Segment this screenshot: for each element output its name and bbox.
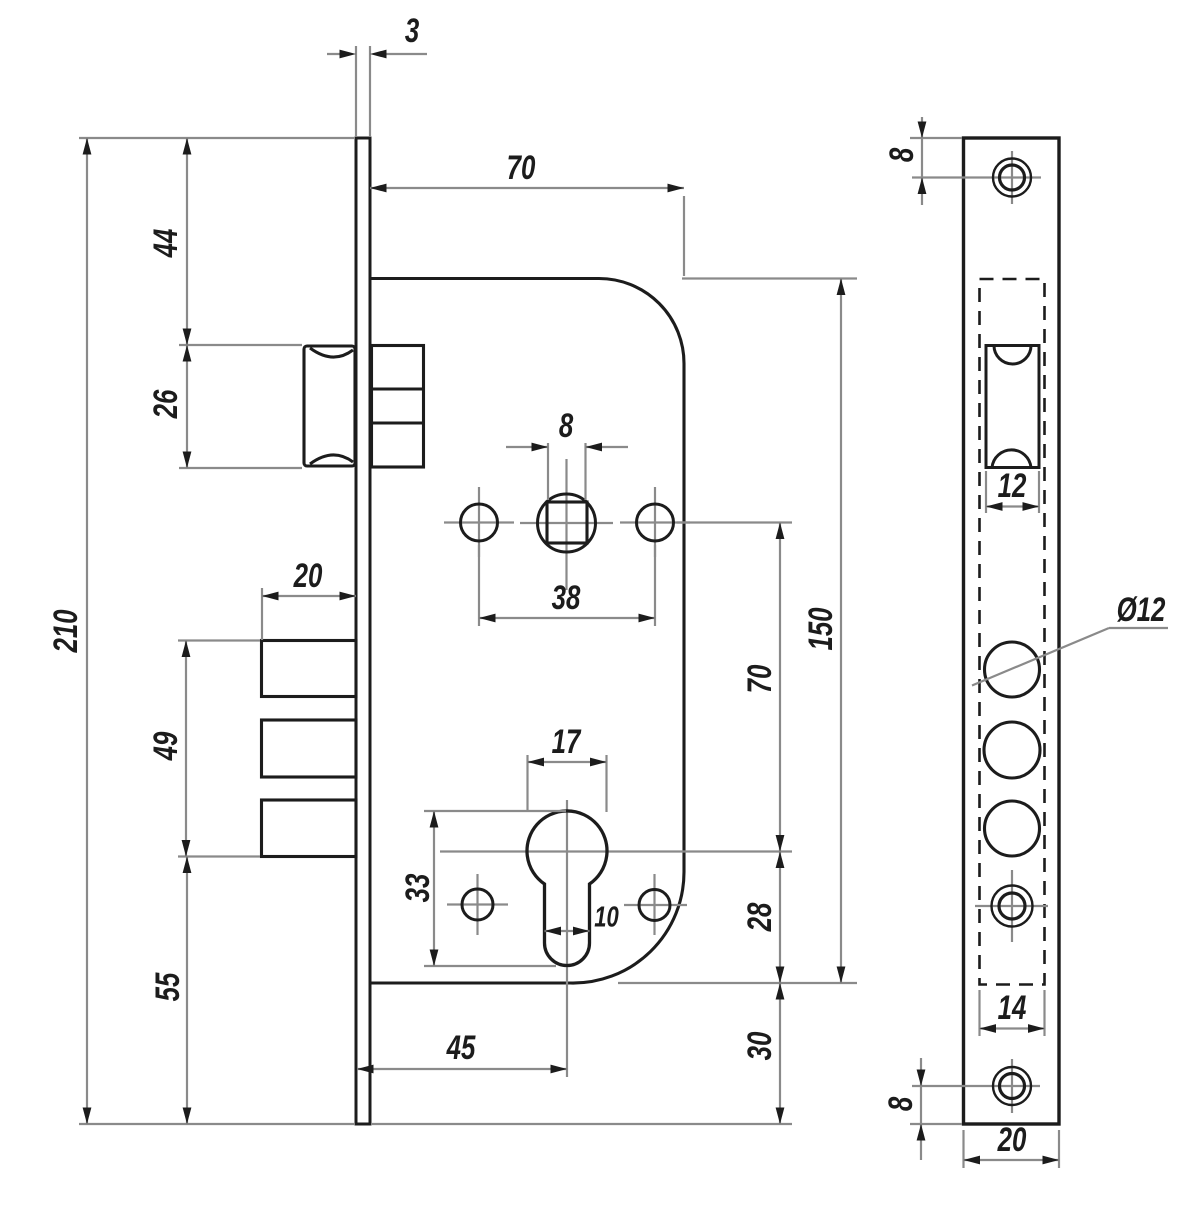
- faceplate front view: [964, 138, 1060, 1124]
- svg-text:12: 12: [998, 468, 1027, 505]
- latch cutout in faceplate: [986, 346, 1039, 468]
- dimension 12 (latch cutout width): [986, 468, 1039, 513]
- deadbolt hole 3 (O12): [985, 801, 1040, 856]
- svg-text:8: 8: [883, 1097, 920, 1112]
- svg-text:30: 30: [742, 1031, 779, 1060]
- deadbolt hole 2 (O12): [984, 722, 1040, 778]
- dimension 210 (overall height): [48, 138, 354, 1124]
- latch bolt body inside case: [372, 346, 424, 468]
- svg-text:8: 8: [884, 148, 921, 163]
- svg-text:17: 17: [552, 724, 582, 761]
- dimension 8 (bottom screw offset): [883, 1058, 962, 1160]
- dimension 28: [742, 852, 785, 984]
- svg-text:44: 44: [148, 228, 185, 258]
- svg-text:33: 33: [400, 873, 437, 902]
- lower-right cylinder screw hole: [624, 874, 687, 935]
- dimension 55: [150, 857, 192, 1125]
- O12 label with leader: [972, 592, 1168, 686]
- svg-text:49: 49: [148, 731, 185, 761]
- dimension 3 (faceplate thickness): [327, 13, 427, 137]
- svg-text:Ø12: Ø12: [1117, 592, 1166, 629]
- dimension 8 (spindle square): [506, 408, 628, 500]
- dimension 33 (cylinder profile height): [400, 811, 566, 966]
- deadbolt hole 1 (O12): [985, 642, 1040, 697]
- dimension 30: [372, 983, 792, 1124]
- svg-text:20: 20: [997, 1122, 1027, 1159]
- svg-text:150: 150: [803, 607, 840, 650]
- svg-text:20: 20: [293, 558, 323, 595]
- bottom fixing screw hole: [912, 1059, 1040, 1113]
- latch bolt head (left of faceplate): [304, 346, 355, 466]
- dimension 70 (case depth, top): [370, 150, 684, 276]
- lock case body: [371, 279, 685, 984]
- svg-text:8: 8: [559, 408, 574, 445]
- left handle-screw hole: [444, 487, 514, 557]
- dimension 14 (case width): [980, 990, 1045, 1036]
- dimension 26 (latch height): [148, 345, 302, 468]
- middle fixing screw hole: [975, 870, 1048, 942]
- dimension 70 (right, handle to cylinder): [677, 523, 792, 852]
- dimension 20 (faceplate width): [964, 1122, 1060, 1168]
- svg-text:14: 14: [998, 990, 1027, 1027]
- euro cylinder keyhole: [440, 800, 792, 1077]
- svg-text:38: 38: [552, 580, 581, 617]
- svg-text:3: 3: [405, 13, 420, 50]
- dashed lock case outline behind faceplate: [980, 279, 1045, 985]
- dimension 150 (case height): [618, 279, 857, 984]
- svg-text:70: 70: [507, 150, 536, 187]
- svg-text:10: 10: [594, 902, 619, 934]
- deadbolt (three stacked plates): [262, 641, 357, 857]
- svg-text:28: 28: [742, 902, 779, 932]
- svg-text:45: 45: [446, 1030, 477, 1067]
- dimension 8 (top screw offset): [884, 117, 962, 205]
- dimension 49 (deadbolt height): [148, 641, 260, 857]
- top fixing screw hole: [912, 151, 1041, 204]
- faceplate (side view): [356, 138, 370, 1124]
- right handle-screw hole: [620, 487, 690, 557]
- dimension 20 (deadbolt throw): [262, 558, 356, 640]
- lower-left cylinder screw hole: [447, 874, 508, 935]
- dimension 17 (cylinder width): [528, 724, 607, 812]
- dimension 44: [148, 138, 302, 345]
- svg-text:26: 26: [148, 389, 185, 419]
- svg-text:70: 70: [742, 664, 779, 693]
- svg-text:55: 55: [150, 972, 187, 1002]
- dimension 38 (handle hole spacing): [479, 545, 655, 626]
- spindle square hole: [520, 459, 613, 590]
- dimension 10 (keyway width): [545, 902, 620, 936]
- dimension 45 (backset): [357, 1030, 567, 1074]
- svg-text:210: 210: [48, 609, 85, 653]
